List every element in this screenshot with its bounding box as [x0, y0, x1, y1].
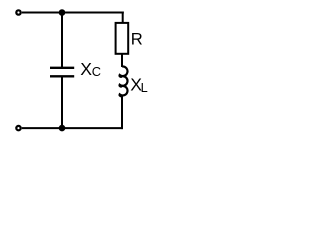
terminal T1 (top-left open circle)	[16, 10, 20, 14]
terminal T2 (bottom-left open circle)	[16, 126, 20, 130]
wire bottom-left: node B to terminal	[22, 127, 62, 129]
wire: resistor to inductor	[121, 54, 123, 67]
wire bottom: corner to node B	[62, 127, 123, 129]
wire top: node A to top-right corner	[62, 12, 124, 14]
svg-text:R: R	[131, 30, 143, 49]
wire top-left: terminal to node A	[22, 12, 62, 14]
inductor L (coil, 3 loops)	[120, 66, 128, 96]
wire: node A down to capacitor top plate	[61, 13, 63, 68]
capacitor C top plate	[50, 67, 74, 69]
svg-text:C: C	[92, 64, 101, 79]
node A (top junction dot)	[59, 9, 66, 16]
svg-text:L: L	[141, 80, 148, 95]
svg-text:X: X	[80, 59, 92, 79]
resistor R (rectangle)	[116, 23, 129, 54]
capacitor C bottom plate	[50, 75, 74, 77]
wire right-top: corner down to resistor	[122, 12, 124, 24]
wire: capacitor bottom plate down to node B	[61, 76, 63, 128]
wire: inductor to bottom-right corner	[121, 96, 123, 130]
node B (bottom junction dot)	[59, 125, 66, 132]
